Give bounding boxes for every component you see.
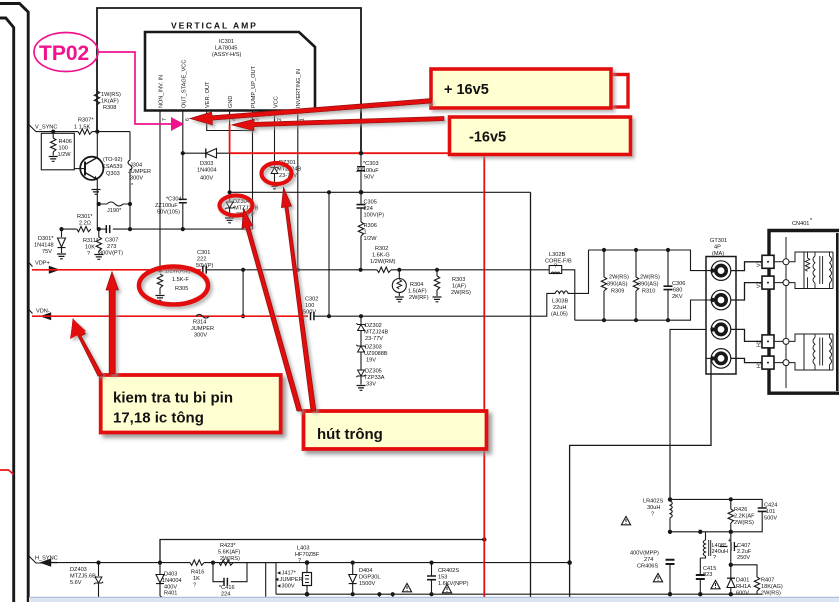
svg-text:D404: D404 (359, 568, 372, 574)
svg-text:390(AS): 390(AS) (638, 282, 659, 288)
svg-text:680: 680 (673, 288, 682, 294)
wire pin5 stub (207, 111, 253, 131)
svg-text:273: 273 (107, 244, 116, 250)
H_SYNC arrow (42, 559, 58, 565)
svg-text:CN401: CN401 (792, 221, 809, 227)
CN401 inner pin circles and bus (785, 237, 787, 388)
zener DZ304 (229, 153, 231, 201)
svg-text:2W(RF): 2W(RF) (409, 295, 429, 301)
callout box hut trong (304, 411, 487, 449)
red ellipse around DZ301 (262, 163, 292, 184)
svg-text:100: 100 (59, 146, 68, 152)
resistor R305 (159, 270, 161, 273)
svg-text:R301*: R301* (77, 214, 93, 220)
wire VER.OUT net y=270 (206, 269, 549, 271)
svg-text:33V: 33V (366, 382, 376, 388)
svg-text:TZP33A: TZP33A (364, 375, 385, 381)
yoke bottom coil 2 (830, 334, 832, 370)
contact box V2 (762, 276, 774, 289)
junction dot red C303 (359, 151, 363, 155)
warning triangle CR406S (653, 573, 662, 581)
R406 box (41, 133, 74, 170)
callout box +16v5 (431, 69, 611, 108)
diode D303 (206, 149, 217, 158)
resistor R308 on border (94, 91, 99, 105)
svg-text:1W(RS): 1W(RS) (101, 92, 121, 98)
resistor R407 (754, 577, 759, 591)
svg-text:C301: C301 (197, 250, 210, 256)
ground R305 (156, 296, 165, 301)
TP02 pink ellipse (34, 33, 98, 72)
wire VDN net black part (314, 293, 553, 316)
svg-text:R416: R416 (191, 570, 204, 576)
junction dot V_SYNC (51, 130, 55, 134)
wire H2 pin to LR402S column (670, 329, 706, 499)
svg-text:CORE-F/B: CORE-F/B (545, 259, 572, 265)
junction dot R307 right (95, 130, 99, 134)
red stub far left (0, 470, 14, 475)
capacitor C424 (758, 508, 767, 511)
jack pin H2 (711, 320, 731, 340)
svg-text:RH1A: RH1A (736, 584, 751, 590)
wire x=329 vertical (328, 192, 330, 316)
svg-text:C306: C306 (672, 281, 685, 287)
white box behind +16v5 (556, 75, 628, 108)
svg-text:R306: R306 (364, 223, 377, 229)
svg-text:100: 100 (305, 303, 314, 309)
svg-text:*C304: *C304 (166, 197, 182, 203)
svg-text:17,18 ic tông: 17,18 ic tông (113, 410, 204, 427)
top rail y=499.4 (670, 499, 762, 507)
H_SYNC wire (29, 556, 42, 563)
svg-text:5.6K(AF): 5.6K(AF) (218, 550, 241, 556)
svg-text:R305: R305 (175, 286, 188, 292)
resistor R310 (635, 250, 637, 277)
wire L302B to bottom rail (562, 270, 575, 320)
svg-text:2W(RS): 2W(RS) (220, 556, 240, 562)
svg-text:R302: R302 (375, 246, 388, 252)
svg-text:600V: 600V (736, 591, 749, 597)
node C407 bottom (729, 563, 733, 567)
red wire pin4 vertical (229, 125, 231, 154)
svg-text:D303: D303 (200, 161, 213, 167)
svg-text:50V(105): 50V(105) (157, 210, 180, 216)
svg-text:MTZJ24B: MTZJ24B (234, 206, 259, 212)
junction dots H rail (96, 561, 100, 565)
svg-text:LR402S: LR402S (643, 499, 663, 505)
transistor Q303 (80, 157, 103, 180)
resistor R423 inline (219, 562, 221, 564)
svg-text:224: 224 (364, 206, 373, 212)
junction dot C303 bottom (359, 190, 364, 195)
ground DZ301 (270, 184, 279, 189)
svg-text:R307*: R307* (78, 118, 94, 124)
diode D401 (727, 579, 735, 588)
svg-text:C305: C305 (364, 200, 377, 206)
svg-text:L303B: L303B (552, 299, 568, 305)
svg-text:IC301: IC301 (219, 39, 234, 45)
left page frame outer line (0, 4, 28, 602)
svg-text:(TO-92): (TO-92) (103, 157, 123, 163)
red arrow hut trong to DZ301 (282, 188, 317, 412)
ground R406 (49, 157, 58, 162)
svg-text:222: 222 (197, 257, 206, 263)
CN401 connector frame (769, 231, 839, 394)
svg-text:LA78045: LA78045 (215, 46, 237, 52)
svg-text:UZ9088B: UZ9088B (364, 351, 388, 357)
resistor R303 (436, 270, 438, 276)
inductor L408 (705, 532, 707, 540)
svg-text:1.6KV(NPP): 1.6KV(NPP) (438, 581, 469, 587)
svg-text:153: 153 (438, 575, 447, 581)
svg-text:H2: H2 (757, 340, 763, 347)
svg-text:?: ? (87, 251, 90, 257)
svg-text:75V: 75V (42, 249, 52, 255)
svg-text:J190*: J190* (107, 208, 122, 214)
R304 lamp symbol (398, 270, 400, 278)
IC301 vertical amp box (145, 32, 315, 111)
svg-text:(ASSY-H/S): (ASSY-H/S) (212, 52, 241, 58)
ground D301 (57, 254, 66, 259)
resistor R311 (98, 229, 100, 237)
main H rail y=562.6 (56, 562, 276, 564)
junction dots y=229 (59, 227, 63, 231)
diode D301 (61, 229, 63, 237)
capacitor C415 (699, 558, 701, 575)
zener DZ303 (356, 345, 365, 352)
svg-text:400V: 400V (200, 176, 213, 182)
capacitor C304 plates (179, 199, 187, 202)
svg-text:(AL05): (AL05) (551, 312, 568, 318)
TP02 pink pointer line (98, 52, 172, 124)
svg-text:2: 2 (277, 118, 283, 121)
wire pin2 down to DZ301 (274, 111, 276, 167)
svg-text:18K(AG): 18K(AG) (761, 584, 783, 590)
capacitor C306 (667, 250, 669, 286)
svg-text:3: 3 (255, 118, 261, 121)
svg-text:2.2K(AF: 2.2K(AF (734, 514, 755, 520)
svg-text:JUMPER: JUMPER (191, 326, 214, 332)
inductor L303B (553, 291, 570, 294)
svg-text:2W(RS): 2W(RS) (640, 275, 660, 281)
svg-text:300V(PT): 300V(PT) (99, 251, 123, 257)
capacitor CR402S (431, 563, 433, 576)
svg-text:R311*: R311* (83, 238, 99, 244)
wire y=192 horizontal to big loop (230, 191, 531, 193)
resistor R426 (730, 499, 732, 509)
svg-text:101: 101 (766, 509, 775, 515)
warning triangle LR402S (621, 516, 630, 524)
svg-text:1/2W: 1/2W (364, 236, 378, 242)
jack pin V1 (711, 261, 731, 281)
ground DZ305 (357, 386, 366, 391)
svg-text:?: ? (298, 558, 301, 564)
svg-text:MTZJ5.6B: MTZJ5.6B (70, 574, 96, 580)
svg-text:+ 16v5: + 16v5 (444, 82, 489, 98)
diode D404 (352, 563, 354, 574)
svg-text:50V(P): 50V(P) (196, 263, 214, 269)
resistor R416 (190, 560, 204, 565)
mid rail y=531.8 (670, 512, 762, 532)
yoke top coil 1 (813, 252, 815, 289)
wire pin1 down (297, 111, 299, 270)
warning triangle bottom rail 1 (402, 583, 411, 591)
svg-text:100V(P): 100V(P) (364, 213, 385, 219)
svg-text:30uH: 30uH (647, 505, 660, 511)
svg-text:VCC: VCC (274, 96, 280, 108)
svg-text:◄J417*: ◄J417* (276, 571, 297, 577)
svg-text:?: ? (651, 512, 654, 518)
resistor R406 (52, 132, 54, 138)
J190 jumper (99, 203, 130, 205)
callout box kiem tra (101, 375, 281, 433)
warning triangle bottom rail 2 (442, 584, 451, 592)
svg-text:500V: 500V (303, 310, 316, 316)
capacitor C303 column (360, 151, 362, 192)
svg-text:2KV: 2KV (672, 294, 683, 300)
wire pin4 stub (229, 111, 231, 126)
GT301 connector box (706, 257, 736, 375)
svg-text:DZ305: DZ305 (365, 369, 382, 375)
zener DZ302 (360, 316, 362, 324)
wire parallel drop x=265.7 (265, 563, 267, 599)
svg-text:2W(RS): 2W(RS) (734, 520, 754, 526)
warning triangle D401 (711, 580, 720, 588)
svg-text:R314: R314 (193, 320, 206, 326)
svg-text:JUMPER: JUMPER (128, 169, 151, 175)
J304 jumper column (129, 132, 131, 230)
svg-text:R310: R310 (642, 289, 655, 295)
svg-text:1.6K-G: 1.6K-G (372, 253, 390, 259)
feedback wire y=539.5 (160, 540, 484, 563)
ground R311 (94, 255, 103, 260)
svg-text:1 1.5K: 1 1.5K (74, 125, 90, 131)
svg-text:*C303: *C303 (363, 161, 379, 167)
wire V_SYNC row (29, 125, 78, 132)
red wire y=153 horizontal (230, 152, 452, 154)
svg-text:2.2Ω: 2.2Ω (79, 221, 91, 227)
svg-text:R309: R309 (611, 289, 624, 295)
capacitor C302 inline on VDN net (311, 312, 314, 320)
wire x=243 down (242, 270, 244, 316)
svg-text:1.5(AF): 1.5(AF) (408, 289, 427, 295)
svg-text:22uH: 22uH (553, 305, 566, 311)
svg-text:2W(RS): 2W(RS) (451, 290, 471, 296)
capacitor CR406S (666, 560, 675, 564)
svg-text:C302: C302 (305, 297, 318, 303)
yoke bottom pair wiring (789, 334, 804, 370)
yoke bottom core bars (820, 338, 823, 366)
svg-text:KSA539: KSA539 (102, 164, 123, 170)
junction dot DZ304 top (228, 190, 232, 194)
contact box H1 (762, 356, 774, 369)
svg-text:50V: 50V (364, 175, 374, 181)
resistor R307 (78, 129, 92, 134)
svg-text:V_SYNC: V_SYNC (35, 125, 57, 131)
svg-text:1N4004: 1N4004 (197, 168, 217, 174)
svg-text:L302B: L302B (549, 252, 565, 258)
outer schematic border (97, 8, 361, 151)
wire y=562.6 right portion end dot (567, 560, 572, 565)
svg-text:INVERTING_IN: INVERTING_IN (296, 69, 302, 108)
zener DZ301 (274, 166, 276, 169)
resistor R309 (603, 250, 605, 277)
ground Q303 emitter (92, 190, 101, 195)
junction dots VDN (241, 314, 245, 318)
svg-text:DGP30L: DGP30L (359, 575, 380, 581)
resistor R302 inline (377, 267, 391, 272)
svg-text:224: 224 (221, 592, 230, 598)
resistor R301 (77, 226, 91, 231)
ground R304 (395, 297, 404, 302)
svg-text:823: 823 (703, 572, 712, 578)
svg-text:TP02: TP02 (39, 42, 89, 65)
svg-text:NON_INV. IN: NON_INV. IN (159, 75, 165, 108)
svg-text:390(AS): 390(AS) (607, 282, 628, 288)
svg-text:ZZ100uF: ZZ100uF (155, 203, 178, 209)
contact box H2 (762, 335, 774, 348)
svg-text:R407: R407 (761, 578, 774, 584)
capacitor C307 (106, 225, 109, 233)
red arrow kiem tra to VDP (106, 272, 119, 374)
svg-text:CR406S: CR406S (637, 564, 658, 570)
svg-text:500V: 500V (764, 516, 777, 522)
wire y=229 horizontal (62, 228, 253, 230)
top rail y=250 (589, 250, 712, 271)
wire pin3 down (252, 111, 254, 230)
bottom rail y=320 (575, 300, 711, 320)
svg-text:PUMP_UP_OUT: PUMP_UP_OUT (251, 65, 257, 108)
svg-text:2W(RS): 2W(RS) (761, 591, 781, 597)
capacitor C305 (360, 192, 362, 204)
yoke bottom coil 1 (813, 334, 815, 370)
svg-text:-16v5: -16v5 (469, 130, 506, 146)
svg-text:R423*: R423* (220, 543, 236, 549)
svg-text:DZ303: DZ303 (365, 345, 382, 351)
red arrow +16v5 to pin6 (190, 99, 432, 125)
junction dot D303 left (181, 151, 185, 155)
svg-text:MTZJ24B: MTZJ24B (364, 330, 389, 336)
svg-text:ZZ100uF: ZZ100uF (356, 168, 379, 174)
svg-text:◄JUMPER: ◄JUMPER (274, 577, 303, 583)
svg-text:1K(AF): 1K(AF) (101, 99, 119, 105)
svg-text:1K: 1K (193, 576, 200, 582)
yoke top coil 2 (830, 252, 832, 289)
svg-text:R406: R406 (59, 139, 72, 145)
wire D303 row y=153 (183, 152, 230, 154)
svg-text:L403: L403 (297, 546, 309, 552)
VDN- arrow (29, 310, 33, 314)
svg-text:C424: C424 (764, 503, 777, 509)
svg-text:10K: 10K (85, 245, 95, 251)
yoke top core bars (820, 256, 823, 284)
svg-text:D401: D401 (736, 578, 749, 584)
svg-text:H1: H1 (757, 361, 763, 368)
svg-text:1/2W(RM): 1/2W(RM) (370, 259, 396, 265)
diode D403 (159, 563, 161, 574)
resistor R306 (360, 208, 362, 222)
svg-text:R303: R303 (452, 277, 465, 283)
svg-text:hút trông: hút trông (317, 426, 383, 443)
stubs under rail (379, 594, 392, 602)
J417 jumper bracket (275, 563, 277, 595)
red wire VDN- (32, 315, 308, 317)
wire pin7 down to R305 (159, 111, 161, 270)
VDP+ arrow (29, 263, 33, 267)
svg-text:GND: GND (228, 96, 234, 108)
svg-text:250V: 250V (737, 555, 750, 561)
svg-text:J304: J304 (130, 163, 142, 169)
svg-text:23-77V: 23-77V (365, 336, 383, 342)
svg-text:CR402S: CR402S (438, 568, 459, 574)
svg-text:VER. OUT: VER. OUT (205, 81, 211, 108)
svg-text:DZ302: DZ302 (365, 323, 382, 329)
zener DZ305 (356, 370, 365, 377)
svg-text:(MA): (MA) (712, 251, 724, 257)
callout box -16v5 (450, 117, 631, 155)
red wire VDP+ (32, 269, 201, 271)
ground DZ304 (225, 218, 234, 223)
svg-text:1: 1 (364, 230, 367, 236)
svg-text:4P: 4P (714, 245, 721, 251)
red ellipse around R305 (139, 267, 208, 305)
svg-text:1N4148: 1N4148 (34, 243, 54, 249)
red ellipse around DZ304 (220, 196, 253, 216)
yoke top pair wiring (789, 252, 804, 289)
jack pin V2 (711, 290, 731, 310)
svg-text:?: ? (193, 583, 196, 589)
left page frame inner line (0, 18, 14, 602)
svg-text:5.6V: 5.6V (70, 580, 82, 586)
svg-text:◄300V: ◄300V (276, 584, 295, 590)
yoke top resistor (805, 252, 809, 289)
svg-text:D403: D403 (164, 572, 177, 578)
svg-text:V2: V2 (757, 282, 763, 288)
svg-text:400V(MPP): 400V(MPP) (630, 551, 659, 557)
svg-text:kiem tra tu bi pin: kiem tra tu bi pin (113, 390, 233, 407)
wire pin6 down (182, 111, 184, 230)
svg-text:D301*: D301* (38, 236, 54, 242)
svg-text:R304: R304 (410, 282, 423, 288)
red arrow hut trong to DZ304 (242, 209, 302, 412)
capacitor C301 (203, 266, 206, 274)
zener DZ403 (98, 563, 100, 576)
svg-text:1500V: 1500V (359, 581, 375, 587)
svg-text:VDP+: VDP+ (35, 261, 50, 267)
junction dots y=270 (241, 268, 245, 272)
svg-text:R426: R426 (734, 507, 747, 513)
svg-text:V1: V1 (757, 261, 763, 267)
svg-text:274: 274 (644, 557, 653, 563)
inductor L302B (549, 266, 562, 274)
svg-text:DZ403: DZ403 (70, 567, 87, 573)
svg-text:2W(RS): 2W(RS) (609, 275, 629, 281)
svg-text:1.5K-F: 1.5K-F (172, 277, 189, 283)
svg-text:VERTICAL AMP: VERTICAL AMP (171, 21, 258, 31)
svg-text:GT301: GT301 (710, 238, 727, 244)
big loop vertical x=530.5 (530, 192, 532, 598)
capacitor C416 parallel loop (213, 563, 247, 582)
svg-text:1/2W: 1/2W (58, 152, 72, 158)
jack pin H1 (711, 349, 731, 369)
red vertical x=484 (483, 154, 485, 597)
svg-text:7: 7 (162, 118, 168, 121)
svg-text:Q303: Q303 (106, 171, 120, 177)
bottom window strip (29, 597, 839, 602)
svg-text:?: ? (713, 555, 716, 561)
svg-text:300V: 300V (130, 176, 143, 182)
svg-text:R401: R401 (164, 591, 177, 597)
